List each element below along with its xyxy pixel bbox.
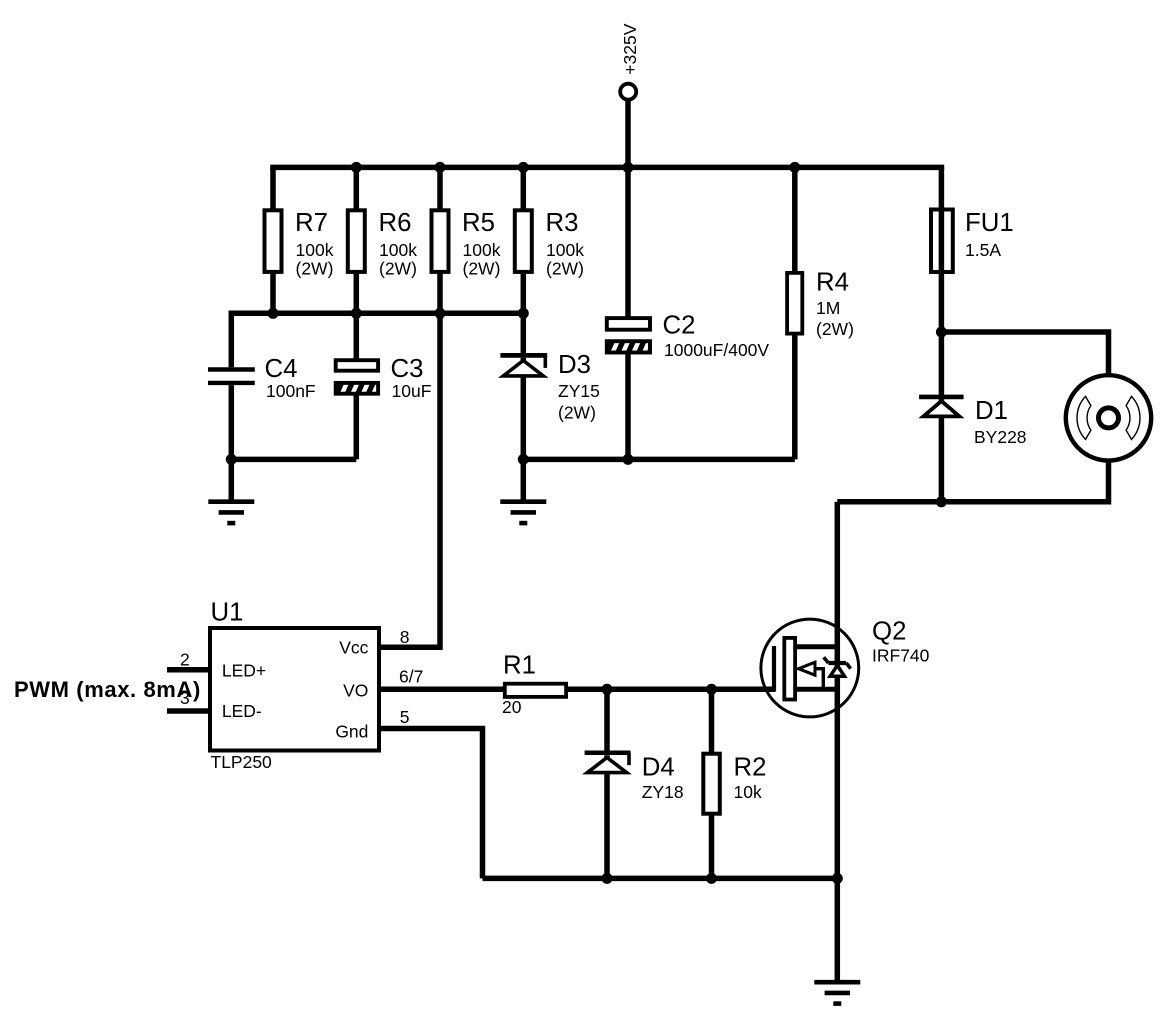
svg-text:(2W): (2W) xyxy=(546,259,584,279)
motor M xyxy=(1066,375,1151,460)
svg-text:1.5A: 1.5A xyxy=(965,240,1001,260)
svg-text:6/7: 6/7 xyxy=(399,666,423,686)
junction on bus at R6 xyxy=(351,162,362,173)
svg-text:C2: C2 xyxy=(663,312,696,340)
svg-text:TLP250: TLP250 xyxy=(211,752,273,772)
junction D1 bottom / motor return xyxy=(936,496,947,507)
resistor R7 xyxy=(265,208,334,313)
zener diode D4 xyxy=(585,689,684,878)
junction bottom-left rail at C4/ground xyxy=(226,454,237,465)
junction mid rail at R5 xyxy=(435,308,446,319)
junction on bus at R5 xyxy=(435,162,446,173)
wire node to motor top xyxy=(941,332,1108,377)
wire mid rail under resistors xyxy=(231,311,523,317)
wire source rail (bottom) xyxy=(483,876,838,882)
junction FU1/D1/motor node xyxy=(936,327,947,338)
pin 3 lead xyxy=(167,688,210,711)
svg-text:R2: R2 xyxy=(734,753,767,781)
wire mid-bottom rail (D3-C2-R4) xyxy=(523,457,795,463)
svg-text:100k: 100k xyxy=(379,240,417,260)
pin 6/7 lead VO xyxy=(379,666,505,689)
pin 2 lead xyxy=(167,650,210,670)
svg-text:5: 5 xyxy=(400,707,410,727)
junction VO line at R2 xyxy=(706,684,717,695)
capacitor C4 xyxy=(208,311,316,460)
svg-text:LED+: LED+ xyxy=(222,660,266,680)
MOSFET Q2 xyxy=(761,618,930,717)
svg-text:PWM (max. 8mA): PWM (max. 8mA) xyxy=(14,677,201,702)
svg-text:U1: U1 xyxy=(211,599,244,627)
svg-text:(2W): (2W) xyxy=(558,403,596,423)
svg-text:ZY15: ZY15 xyxy=(558,381,600,401)
svg-text:100k: 100k xyxy=(546,240,584,260)
svg-text:D1: D1 xyxy=(975,397,1008,425)
svg-text:10uF: 10uF xyxy=(392,381,432,401)
wire motor bottom to lower node xyxy=(837,461,1108,502)
wire drain line down to source rail xyxy=(835,502,841,879)
svg-text:LED-: LED- xyxy=(222,701,262,721)
svg-text:Q2: Q2 xyxy=(872,618,906,646)
junction mid-bottom rail at C2 xyxy=(623,454,634,465)
svg-text:10k: 10k xyxy=(734,782,762,802)
ground (left, C4/C3) xyxy=(208,502,254,523)
wire +325V terminal to top bus xyxy=(625,100,631,168)
wire R7 top lead xyxy=(270,167,276,210)
junction VO line at D4 xyxy=(602,684,613,695)
svg-text:(2W): (2W) xyxy=(296,259,334,279)
junction source rail at D4 xyxy=(602,873,613,884)
pin 5 lead Gnd xyxy=(379,707,483,879)
junction on bus at R3 xyxy=(518,162,529,173)
svg-text:100k: 100k xyxy=(463,240,501,260)
wire Q2 source ground stem xyxy=(835,878,841,982)
svg-text:C3: C3 xyxy=(391,355,424,383)
svg-text:100k: 100k xyxy=(296,240,334,260)
wire R6 top lead xyxy=(354,167,360,210)
capacitor C2 (electrolytic) xyxy=(607,167,770,459)
svg-text:(2W): (2W) xyxy=(379,259,417,279)
fuse FU1 xyxy=(931,167,1014,332)
svg-text:Gnd: Gnd xyxy=(335,721,368,741)
svg-text:R6: R6 xyxy=(379,209,412,237)
resistor R6 xyxy=(348,208,417,313)
junction mid rail at R6 xyxy=(351,308,362,319)
svg-text:C4: C4 xyxy=(265,355,298,383)
node +325V terminal xyxy=(620,23,640,99)
ground (D3) xyxy=(500,502,546,523)
resistor R4 xyxy=(787,167,854,459)
svg-text:2: 2 xyxy=(180,650,190,670)
junction on bus at +325V xyxy=(623,162,634,173)
wire R3 top lead xyxy=(521,167,527,210)
junction mid rail at R7 xyxy=(268,308,279,319)
svg-text:R4: R4 xyxy=(816,269,849,297)
svg-text:IRF740: IRF740 xyxy=(872,646,930,666)
svg-text:100nF: 100nF xyxy=(266,381,316,401)
wire R5 top lead xyxy=(437,167,443,210)
svg-text:R1: R1 xyxy=(503,651,536,679)
junction source rail at R2 xyxy=(706,873,717,884)
resistor R3 xyxy=(515,208,584,313)
junction source rail at Q2 xyxy=(832,873,843,884)
svg-text:R7: R7 xyxy=(295,209,328,237)
svg-text:BY228: BY228 xyxy=(974,427,1027,447)
svg-text:D4: D4 xyxy=(642,753,675,781)
wire D3 ground stem xyxy=(521,459,527,501)
svg-text:(2W): (2W) xyxy=(463,259,501,279)
resistor R5 xyxy=(432,208,501,313)
zener diode D3 xyxy=(500,313,599,459)
diode D1 xyxy=(919,332,1026,502)
svg-text:20: 20 xyxy=(502,697,522,717)
svg-text:(2W): (2W) xyxy=(816,319,854,339)
resistor R1 xyxy=(502,651,775,717)
resistor R2 xyxy=(703,689,766,878)
pin 8 lead Vcc xyxy=(379,313,440,647)
wire top bus xyxy=(270,165,944,171)
svg-text:ZY18: ZY18 xyxy=(642,782,684,802)
junction on bus at R4 xyxy=(789,162,800,173)
ground (power, Q2 source) xyxy=(814,982,860,1003)
svg-text:8: 8 xyxy=(400,627,410,647)
svg-text:+325V: +325V xyxy=(620,23,640,74)
svg-text:D3: D3 xyxy=(558,351,591,379)
wire bottom-left rail (C4-C3) xyxy=(231,457,356,463)
svg-text:1M: 1M xyxy=(816,298,840,318)
junction mid-bottom rail at D3 xyxy=(518,454,529,465)
junction mid rail at D3 xyxy=(518,308,529,319)
svg-text:VO: VO xyxy=(343,681,368,701)
svg-text:R5: R5 xyxy=(462,209,495,237)
svg-text:1000uF/400V: 1000uF/400V xyxy=(664,340,769,360)
wire C4 ground stem xyxy=(229,459,235,501)
svg-text:R3: R3 xyxy=(546,209,579,237)
IC U1 TLP250 box xyxy=(210,599,379,772)
svg-text:Vcc: Vcc xyxy=(339,638,368,658)
svg-text:FU1: FU1 xyxy=(965,209,1014,237)
capacitor C3 (electrolytic) xyxy=(336,313,432,459)
